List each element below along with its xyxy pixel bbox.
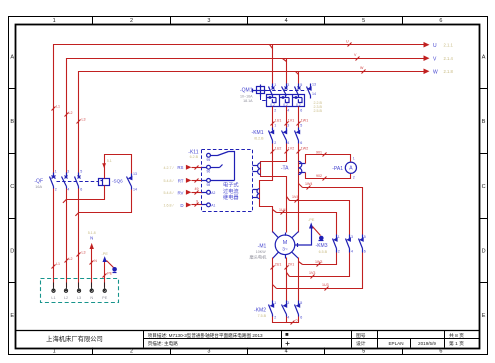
svg-text:1V2: 1V2 bbox=[288, 147, 294, 151]
QM1 heater element 2 bbox=[280, 95, 290, 107]
svg-text:2: 2 bbox=[338, 249, 340, 253]
wire number 2U1 bbox=[271, 263, 282, 270]
svg-text:EPLAN: EPLAN bbox=[388, 341, 403, 346]
zone letters right bbox=[482, 54, 486, 319]
arrow bus L3 to sheet 2 bbox=[424, 69, 430, 75]
svg-text:A: A bbox=[10, 54, 14, 60]
motor earth branch diagonal bbox=[313, 227, 321, 236]
QM1 auxiliary pins bbox=[312, 83, 316, 97]
svg-text:共 8 页: 共 8 页 bbox=[449, 332, 464, 339]
svg-text:1W4: 1W4 bbox=[305, 182, 312, 186]
wire L1 lower bbox=[53, 189, 55, 288]
svg-text:1.6.8 /: 1.6.8 / bbox=[164, 204, 174, 208]
svg-text:B: B bbox=[482, 119, 486, 125]
arrow source D bbox=[186, 202, 207, 207]
KM2 pole 3 pins bbox=[300, 301, 302, 319]
circuit breaker QF pole 3 pins bbox=[80, 170, 82, 192]
svg-text:-PA1: -PA1 bbox=[332, 166, 343, 172]
arrow N up bbox=[90, 243, 94, 249]
wire L3 riser and top bus bbox=[79, 72, 424, 177]
terminal L2 bbox=[64, 283, 67, 293]
svg-text:16A: 16A bbox=[35, 185, 42, 189]
KM3 pole 2 pins bbox=[351, 235, 353, 253]
svg-text:4: 4 bbox=[67, 188, 69, 192]
wire number 0 star point bbox=[291, 319, 298, 325]
wire W phase branch to KM3 pole3 bbox=[299, 184, 363, 235]
contactor KM3 pole 1 bbox=[333, 235, 338, 253]
QM1 manual operator bbox=[253, 85, 267, 97]
svg-text:W: W bbox=[360, 66, 364, 70]
wire QM1 to KM1 phase W bbox=[298, 107, 300, 128]
svg-text:2U1: 2U1 bbox=[275, 263, 282, 267]
svg-text:6: 6 bbox=[439, 349, 442, 355]
circuit breaker QF pole 1 bbox=[50, 173, 56, 189]
wire L2 lower bbox=[66, 189, 68, 288]
svg-text:95: 95 bbox=[207, 158, 211, 162]
svg-text:1V4: 1V4 bbox=[292, 195, 298, 199]
svg-text:4: 4 bbox=[351, 249, 353, 253]
svg-text:N: N bbox=[94, 259, 97, 263]
wire motor V2 down to KM2 bbox=[286, 258, 288, 301]
svg-text:E: E bbox=[482, 313, 486, 319]
arrow source RT bbox=[186, 178, 207, 183]
svg-text:L1: L1 bbox=[56, 105, 60, 109]
KM1 pole 3 pins bbox=[300, 124, 302, 146]
svg-text:1: 1 bbox=[274, 301, 276, 305]
K11 internal contact bbox=[211, 152, 235, 181]
svg-text:18.1A: 18.1A bbox=[243, 99, 253, 103]
svg-text:7.5.B: 7.5.B bbox=[258, 314, 267, 318]
motor M1 leads top bbox=[273, 232, 299, 238]
svg-text:继电器: 继电器 bbox=[223, 193, 239, 201]
QM1 thermal overload box bbox=[267, 95, 305, 107]
svg-text:PE: PE bbox=[107, 271, 112, 275]
KM3 pole 3 pins bbox=[364, 235, 366, 253]
motor PE arrow bbox=[309, 222, 313, 228]
arrow on SQ6 wire bbox=[102, 163, 106, 168]
svg-text:N: N bbox=[90, 236, 93, 241]
contactor KM1 pole 2 bbox=[282, 128, 287, 144]
svg-text:-TA: -TA bbox=[281, 166, 289, 172]
K11 CT2 sensor winding bbox=[253, 189, 260, 199]
svg-text:1W3: 1W3 bbox=[315, 260, 322, 264]
wire SQ6 loop top bbox=[105, 155, 132, 179]
svg-text:1U3: 1U3 bbox=[322, 283, 329, 287]
svg-text:5.4.8 /: 5.4.8 / bbox=[164, 191, 174, 195]
terminal L1 bbox=[52, 283, 55, 293]
wire SQ6 coil to L2 bbox=[67, 186, 105, 200]
overcurrent relay K11 dashed box bbox=[202, 150, 253, 212]
svg-text:-KM1: -KM1 bbox=[252, 130, 264, 136]
svg-text:RS: RS bbox=[177, 165, 183, 170]
KM1 pole 2 pins bbox=[287, 124, 289, 146]
svg-text:14: 14 bbox=[312, 92, 316, 96]
svg-text:13: 13 bbox=[312, 83, 316, 87]
motor M1 bbox=[275, 235, 295, 255]
zone tick marks right strip bbox=[480, 89, 488, 283]
terminal PE bbox=[103, 283, 106, 293]
wire KM3 pole3 to motor U2 bbox=[273, 253, 363, 289]
wire KM3 pole1 to motor W2 bbox=[299, 253, 337, 265]
svg-text:W: W bbox=[433, 69, 438, 75]
svg-text:14: 14 bbox=[133, 187, 137, 191]
PE earth ball bbox=[112, 267, 117, 273]
wire number 1U1 bbox=[271, 119, 282, 126]
ammeter PA1 pins bbox=[353, 156, 355, 179]
svg-text:-M1: -M1 bbox=[258, 243, 267, 249]
svg-text:磨头电机: 磨头电机 bbox=[250, 253, 268, 260]
wire number slash U on bus bbox=[346, 40, 352, 47]
QM1 pole 2 contact bbox=[282, 84, 288, 96]
svg-text:6: 6 bbox=[80, 188, 82, 192]
QM1 auxiliary cross-references bbox=[314, 101, 323, 113]
QM1 operator linkage dashed bbox=[267, 90, 307, 92]
svg-text:/6.2.B: /6.2.B bbox=[254, 137, 264, 141]
contactor KM3 pole 3 bbox=[359, 235, 364, 253]
svg-text:5.1: 5.1 bbox=[107, 159, 112, 163]
svg-text:902: 902 bbox=[316, 174, 322, 178]
svg-text:L2: L2 bbox=[69, 257, 73, 261]
svg-text:L1: L1 bbox=[56, 262, 60, 266]
QM1 auxiliary contact bbox=[307, 84, 312, 99]
svg-text:5: 5 bbox=[300, 124, 302, 128]
KM2 pole 2 pins bbox=[287, 301, 289, 319]
contactor KM2 pole 3 bbox=[295, 301, 300, 317]
svg-text:PE: PE bbox=[102, 296, 108, 300]
wire ammeter loop bbox=[306, 155, 351, 164]
zone tick marks bottom strip bbox=[93, 348, 403, 355]
svg-text:96: 96 bbox=[207, 170, 211, 174]
K11 terminal A2 bbox=[207, 190, 211, 194]
svg-text:U: U bbox=[346, 40, 349, 44]
svg-text:49: 49 bbox=[195, 187, 199, 191]
svg-text:1: 1 bbox=[274, 124, 276, 128]
svg-text:5: 5 bbox=[362, 349, 365, 355]
svg-text:2: 2 bbox=[130, 349, 133, 355]
svg-text:3: 3 bbox=[287, 301, 289, 305]
wire PE riser bbox=[104, 259, 106, 288]
wire number L1 lower bbox=[52, 262, 61, 269]
motor earth ball bbox=[319, 236, 324, 241]
wire number 49 bbox=[195, 187, 199, 194]
svg-text:电子式: 电子式 bbox=[223, 181, 239, 189]
wire number 1W3 bbox=[315, 260, 322, 267]
svg-text:9: 9 bbox=[196, 200, 198, 204]
contactor KM1 pole 3 bbox=[295, 128, 300, 144]
K11 description text bbox=[223, 181, 239, 202]
svg-text:0.2: 0.2 bbox=[270, 103, 275, 107]
wire U phase detour through K11 CT2 bbox=[260, 144, 273, 233]
svg-text:U: U bbox=[433, 43, 437, 49]
svg-text:A2: A2 bbox=[211, 191, 215, 195]
terminal L3 bbox=[77, 283, 80, 293]
svg-text:5: 5 bbox=[80, 170, 82, 174]
svg-text:4: 4 bbox=[285, 349, 288, 355]
K11 terminal 96 bbox=[207, 165, 211, 169]
position switch SQ6 contact bbox=[127, 174, 132, 190]
circuit breaker QF pole 3 bbox=[75, 173, 81, 189]
svg-text:4: 4 bbox=[287, 141, 289, 145]
SQ6 contact pins bbox=[133, 172, 137, 192]
svg-text:0.2: 0.2 bbox=[296, 103, 301, 107]
svg-text:C: C bbox=[10, 184, 14, 190]
circuit breaker QF pole 2 pins bbox=[67, 170, 69, 192]
QF mechanical linkage dashed bbox=[57, 181, 99, 183]
svg-text:1: 1 bbox=[53, 18, 56, 24]
svg-text:M: M bbox=[283, 240, 288, 246]
svg-text:901: 901 bbox=[316, 150, 322, 154]
arrow source RV bbox=[186, 190, 207, 195]
svg-text:-PE: -PE bbox=[308, 218, 315, 222]
wire number on W branch bbox=[305, 182, 312, 190]
svg-text:0.2: 0.2 bbox=[283, 103, 288, 107]
svg-text:E: E bbox=[10, 313, 14, 319]
ammeter PA1 bbox=[345, 162, 356, 173]
svg-text:4: 4 bbox=[285, 18, 288, 24]
contactor KM2 pole 1 bbox=[269, 301, 274, 317]
contactor KM1 pole 1 bbox=[269, 128, 274, 144]
svg-text:过电流: 过电流 bbox=[223, 187, 239, 195]
wire number L1 on riser bbox=[52, 105, 61, 111]
motor M1 leads bottom bbox=[273, 252, 299, 258]
svg-text:4.2.7 /: 4.2.7 / bbox=[164, 166, 174, 170]
svg-text:-QM1: -QM1 bbox=[240, 88, 253, 94]
wire number 1V2 bbox=[285, 147, 295, 154]
junction bus L3 to W column bbox=[296, 72, 299, 84]
zone numbers top bbox=[53, 18, 443, 24]
svg-text:2: 2 bbox=[274, 109, 276, 113]
wire V phase branch to KM3 pole2 bbox=[287, 197, 350, 235]
svg-text:-KM3: -KM3 bbox=[316, 243, 328, 249]
wire KM3 pole2 to motor V2 bbox=[287, 253, 350, 277]
wire number 1V3 bbox=[309, 271, 315, 279]
wire number 1U2 bbox=[271, 147, 282, 154]
arrow bus L2 to sheet 2 bbox=[424, 55, 430, 61]
svg-text:-QF: -QF bbox=[34, 179, 43, 185]
position switch SQ6 operator box bbox=[99, 179, 110, 186]
svg-text:3: 3 bbox=[287, 124, 289, 128]
wire number 1U3 bbox=[322, 283, 329, 290]
svg-text:D: D bbox=[180, 203, 183, 208]
title block logo square row1 bbox=[286, 333, 289, 336]
wire number on U branch bbox=[279, 208, 286, 215]
svg-text:D: D bbox=[10, 249, 14, 255]
svg-text:3~: 3~ bbox=[282, 246, 288, 252]
svg-text:10KW: 10KW bbox=[256, 250, 266, 254]
terminal strip dashed box bbox=[41, 279, 119, 303]
svg-text:6: 6 bbox=[300, 315, 302, 319]
wire number slash V on bus bbox=[354, 53, 360, 61]
svg-text:-KM2: -KM2 bbox=[254, 307, 266, 313]
arrow source RS bbox=[186, 165, 207, 170]
wire number N lower bbox=[90, 259, 98, 265]
zone tick marks top strip bbox=[93, 17, 403, 25]
svg-text:1W1: 1W1 bbox=[301, 119, 308, 123]
svg-text:2.1.1: 2.1.1 bbox=[444, 43, 454, 48]
K11 terminal 98 bbox=[207, 179, 211, 183]
KM2 pole 1 pins bbox=[274, 301, 276, 319]
K11 terminal 95 bbox=[207, 153, 211, 157]
svg-text:L1: L1 bbox=[51, 296, 55, 300]
svg-text:6: 6 bbox=[439, 18, 442, 24]
svg-text:D: D bbox=[482, 249, 486, 255]
svg-text:A: A bbox=[482, 54, 486, 60]
svg-text:1U4: 1U4 bbox=[279, 208, 286, 212]
wire KM2 star bar bbox=[273, 317, 299, 323]
junction SQ6 wire to L3 bbox=[75, 212, 79, 216]
svg-text:1V1: 1V1 bbox=[288, 119, 294, 123]
svg-text:L3: L3 bbox=[82, 250, 86, 254]
contactor KM2 pole 2 bbox=[282, 301, 287, 317]
svg-text:1U2: 1U2 bbox=[275, 147, 282, 151]
wire number L3 on riser bbox=[77, 118, 86, 124]
wire number slash RT bbox=[195, 179, 199, 183]
wire motor W2 down to KM2 bbox=[298, 258, 300, 301]
QM1 bottom pins bbox=[274, 109, 302, 113]
junction bus L1 to U column bbox=[270, 45, 273, 84]
svg-text:13: 13 bbox=[133, 172, 137, 176]
svg-text:5.4.8 /: 5.4.8 / bbox=[164, 179, 174, 183]
svg-text:-SQ6: -SQ6 bbox=[112, 179, 123, 184]
wire number 901 bbox=[316, 150, 327, 156]
wire number L2 on riser bbox=[65, 111, 73, 117]
svg-text:L2: L2 bbox=[64, 296, 68, 300]
svg-text:1: 1 bbox=[338, 235, 340, 239]
svg-text:6: 6 bbox=[300, 141, 302, 145]
svg-text:-PE: -PE bbox=[102, 252, 109, 256]
svg-text:RV: RV bbox=[177, 190, 183, 195]
svg-text:3: 3 bbox=[351, 235, 353, 239]
svg-text:3: 3 bbox=[287, 83, 289, 87]
svg-text:上海机床厂有限公司: 上海机床厂有限公司 bbox=[46, 334, 103, 343]
svg-text:1: 1 bbox=[53, 349, 56, 355]
svg-text:页描述: 主电路: 页描述: 主电路 bbox=[148, 340, 179, 347]
wire N riser bbox=[91, 247, 93, 288]
svg-text:RT: RT bbox=[178, 178, 184, 183]
svg-text:2: 2 bbox=[274, 141, 276, 145]
wire SQ6 contact down bbox=[79, 190, 132, 213]
svg-text:L2: L2 bbox=[69, 111, 73, 115]
svg-text:2: 2 bbox=[353, 175, 355, 179]
svg-text:6: 6 bbox=[300, 109, 302, 113]
wire number slash RS bbox=[195, 166, 199, 170]
svg-text:L3: L3 bbox=[82, 118, 86, 122]
svg-text:2019/5/9: 2019/5/9 bbox=[418, 341, 436, 346]
contactor KM3 pole 2 bbox=[346, 235, 351, 253]
circuit breaker QF pole 1 pins bbox=[55, 170, 57, 192]
svg-text:4: 4 bbox=[287, 109, 289, 113]
wire number 1W1 bbox=[297, 119, 309, 126]
svg-text:1: 1 bbox=[55, 170, 57, 174]
PE arrow at terminal bbox=[103, 256, 107, 262]
svg-text:1: 1 bbox=[274, 83, 276, 87]
wire number 1V1 bbox=[285, 119, 295, 126]
svg-text:6: 6 bbox=[364, 249, 366, 253]
svg-text:2V1: 2V1 bbox=[288, 263, 294, 267]
svg-text:2: 2 bbox=[274, 315, 276, 319]
svg-text:0: 0 bbox=[296, 319, 298, 323]
wire number 9 bbox=[195, 200, 199, 207]
QM1 pole 1 contact bbox=[269, 84, 275, 96]
QM1 trip linkage dashed bbox=[261, 97, 267, 101]
K11 CT1 sensor winding bbox=[253, 163, 261, 175]
svg-text:6.2.B: 6.2.B bbox=[190, 155, 199, 159]
wire number slash W on bus bbox=[360, 66, 366, 73]
K11 terminal A1 bbox=[207, 203, 211, 207]
terminal N bbox=[90, 283, 93, 293]
wire V phase detour through K11 CT1 bbox=[261, 144, 287, 233]
svg-text:2.5.B: 2.5.B bbox=[314, 109, 323, 113]
svg-text:5.1.8: 5.1.8 bbox=[88, 231, 96, 235]
svg-text:6.5.B: 6.5.B bbox=[319, 250, 328, 254]
svg-text:98: 98 bbox=[207, 183, 211, 187]
PE earth branch diagonal bbox=[107, 261, 114, 268]
wire motor U2 down to KM2 bbox=[272, 258, 274, 301]
wire W phase straight bbox=[298, 144, 300, 233]
zone tick marks left strip bbox=[9, 89, 16, 283]
wire KM2 star bar middle drop bbox=[286, 317, 288, 323]
wire QM1 to KM1 phase V bbox=[286, 107, 288, 128]
svg-text:1U1: 1U1 bbox=[275, 119, 282, 123]
KM3 pole 1 pins bbox=[338, 235, 340, 253]
svg-text:B: B bbox=[10, 119, 14, 125]
wire number on V branch bbox=[292, 195, 299, 203]
svg-text:2: 2 bbox=[55, 188, 57, 192]
QM1 heater element 3 bbox=[293, 95, 303, 107]
wire number 2V1 bbox=[285, 263, 295, 270]
current transformer TA winding bbox=[299, 161, 306, 174]
svg-text:项目描述: M7130-3型普通卧轴矩台平面磨床电路图 20: 项目描述: M7130-3型普通卧轴矩台平面磨床电路图 2013 bbox=[148, 332, 263, 339]
svg-text:2: 2 bbox=[130, 18, 133, 24]
svg-text:设计: 设计 bbox=[356, 340, 366, 347]
svg-text:图号: 图号 bbox=[356, 333, 366, 339]
svg-text:N: N bbox=[90, 296, 93, 300]
wire ammeter loop bottom bbox=[306, 173, 351, 179]
motor PE bond wire bbox=[295, 227, 312, 248]
svg-text:5: 5 bbox=[300, 301, 302, 305]
wire L2 riser and top bus bbox=[67, 59, 424, 177]
title block lines bbox=[16, 331, 480, 348]
svg-text:A1: A1 bbox=[211, 204, 215, 208]
wire QM1 to KM1 phase U bbox=[272, 107, 274, 128]
svg-text:4: 4 bbox=[287, 315, 289, 319]
svg-text:5: 5 bbox=[300, 83, 302, 87]
QM1 heater element 1 bbox=[267, 95, 277, 107]
svg-text:5: 5 bbox=[362, 18, 365, 24]
wire number 1W2 bbox=[297, 147, 309, 154]
svg-text:3: 3 bbox=[207, 18, 210, 24]
svg-text:10~16A: 10~16A bbox=[240, 95, 253, 99]
KM1 pole 1 pins bbox=[274, 124, 276, 146]
junction SQ6 coil wire to L2 bbox=[63, 199, 67, 203]
svg-text:2.1.4: 2.1.4 bbox=[444, 56, 454, 61]
svg-text:L3: L3 bbox=[77, 296, 81, 300]
svg-text:5: 5 bbox=[364, 235, 366, 239]
circuit breaker QF pole 2 bbox=[62, 173, 68, 189]
zone letters left bbox=[10, 54, 14, 319]
QM1 pole 3 contact bbox=[295, 84, 301, 96]
svg-text:1W2: 1W2 bbox=[301, 147, 308, 151]
wire number PE lower bbox=[103, 271, 113, 277]
wire L3 lower bbox=[78, 189, 80, 288]
zone numbers bottom bbox=[53, 349, 443, 355]
wire number 902 bbox=[316, 174, 327, 181]
arrow bus L1 to sheet 2 bbox=[424, 42, 430, 48]
svg-text:1: 1 bbox=[353, 156, 355, 160]
wire number L2 lower bbox=[65, 257, 73, 263]
svg-text:3: 3 bbox=[67, 170, 69, 174]
svg-text:第 1 页: 第 1 页 bbox=[449, 340, 464, 347]
